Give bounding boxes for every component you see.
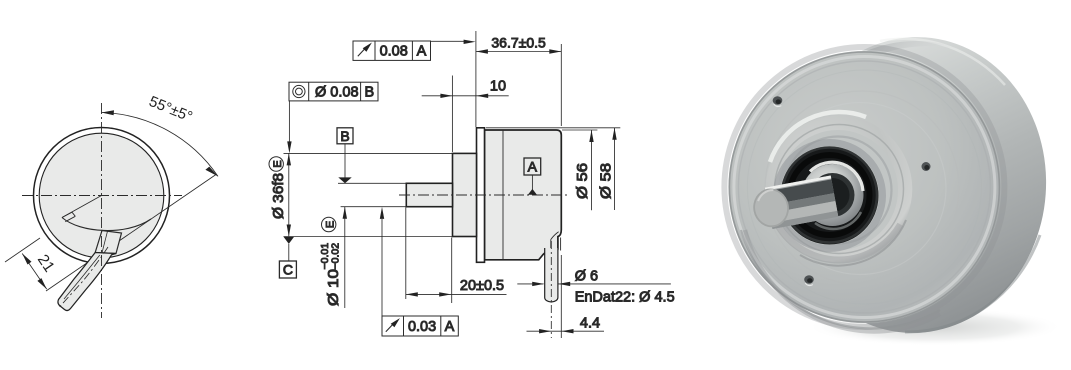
vertical centerline <box>101 103 103 318</box>
front flange disc <box>728 51 1000 323</box>
flange machining ring 1 <box>765 91 959 285</box>
body housing <box>485 130 562 260</box>
black seal ring <box>777 143 883 249</box>
svg-text:B: B <box>340 128 349 144</box>
arc arrowhead right <box>205 167 218 177</box>
flange lower-left dark rim <box>745 230 940 331</box>
svg-text:21: 21 <box>34 252 58 276</box>
dim O58 <box>614 128 616 210</box>
21 dim line <box>22 254 47 290</box>
shaft <box>406 183 452 206</box>
cable axis line 55deg <box>46 175 216 292</box>
cable centerline <box>550 241 552 338</box>
dim O36f8 ext lines <box>284 153 453 236</box>
flange top ext <box>486 127 620 129</box>
svg-text:Ø 36f8: Ø 36f8 <box>271 173 287 219</box>
svg-text:B: B <box>364 85 374 101</box>
cable nozzle <box>95 231 121 254</box>
F1 leader <box>431 40 465 42</box>
datum B <box>337 128 353 184</box>
drum top highlight edge <box>880 39 1005 85</box>
hub step ring <box>775 125 904 254</box>
O6 leader shelf <box>517 283 671 285</box>
gland inner lines <box>551 232 561 251</box>
drum top shading <box>845 41 968 68</box>
spigot boss <box>453 153 477 236</box>
svg-text:EnDat22: Ø 4.5: EnDat22: Ø 4.5 <box>575 290 675 306</box>
svg-text:E: E <box>272 160 284 167</box>
LEFT-VIEW <box>5 93 218 318</box>
arc arrowhead left <box>102 110 115 115</box>
cable stub <box>545 248 558 302</box>
horizontal centerline <box>22 195 182 197</box>
svg-text:36.7±0.5: 36.7±0.5 <box>491 34 546 50</box>
svg-text:A: A <box>528 159 538 175</box>
cable axis dashdot <box>60 247 109 307</box>
MID-VIEW <box>269 31 675 338</box>
flange machining ring 2 <box>774 103 946 275</box>
cable inner ridge <box>64 255 100 299</box>
21 dim arrowheads <box>22 254 31 265</box>
flange contact shadow on drum <box>724 47 1004 327</box>
dim 36.7 ext lines <box>476 31 561 127</box>
screw hole 1 <box>773 96 783 106</box>
svg-text:C: C <box>283 262 293 278</box>
svg-text:4.4: 4.4 <box>580 316 600 332</box>
drum bottom dark edge <box>905 235 1040 332</box>
svg-text:Ø 0.08: Ø 0.08 <box>315 85 359 101</box>
cable band <box>58 253 116 311</box>
PHOTO <box>724 28 1063 346</box>
angle dimension arc <box>102 113 219 177</box>
dim O10 line <box>344 207 346 308</box>
housing outer circle <box>34 128 170 264</box>
dim 4.4 line <box>527 330 605 332</box>
envelope E for O10 <box>322 217 336 231</box>
hub bottom shadow <box>778 225 901 261</box>
frame F3 runout 0.03 A <box>382 316 458 336</box>
drop shadow <box>807 308 1063 346</box>
svg-text:0.08: 0.08 <box>380 44 408 60</box>
flange rim <box>729 52 999 322</box>
gland left lug <box>62 212 75 222</box>
datum C <box>279 237 296 278</box>
radial line to gland <box>62 196 102 218</box>
screw hole 2 <box>922 162 931 171</box>
shaft ext lines <box>338 183 406 206</box>
21 dim ext line <box>5 238 40 262</box>
main centerline <box>399 194 568 196</box>
svg-text:55°±5°: 55°±5° <box>147 93 195 126</box>
gland smile arc <box>62 218 151 231</box>
dim O36f8 line <box>288 153 290 236</box>
body top ext <box>562 129 597 131</box>
flange screw circle <box>747 70 981 304</box>
dim 36.7 line <box>476 51 561 53</box>
dim O56 <box>591 130 593 210</box>
dim 10 line <box>422 95 509 97</box>
encoder body drum <box>774 28 1056 342</box>
svg-text:10: 10 <box>490 79 506 95</box>
svg-text:Ø 10: Ø 10 <box>326 269 342 306</box>
bearing ring <box>802 164 864 226</box>
F3 leader <box>381 219 383 316</box>
housing inner circle <box>39 133 164 258</box>
envelope E for O36f8 <box>269 157 283 171</box>
svg-text:0.03: 0.03 <box>408 319 436 335</box>
svg-text:−0.02: −0.02 <box>330 243 342 270</box>
svg-text:A: A <box>417 44 427 60</box>
datum A <box>524 158 541 195</box>
svg-text:E: E <box>324 221 336 228</box>
hub collar <box>766 116 913 263</box>
dim 20 line <box>406 293 507 295</box>
screw hole 3 <box>804 275 814 285</box>
dim 4.4 ext <box>560 255 562 338</box>
shaft <box>750 175 839 231</box>
svg-text:A: A <box>445 319 455 335</box>
F2 leader <box>288 101 290 142</box>
svg-text:20±0.5: 20±0.5 <box>460 278 504 294</box>
svg-text:Ø 56: Ø 56 <box>575 163 591 199</box>
svg-text:Ø 6: Ø 6 <box>575 269 598 285</box>
body internal line <box>502 130 504 260</box>
hub face <box>778 130 898 250</box>
dim 10 ext line <box>451 76 453 153</box>
nozzle inner line <box>102 231 108 253</box>
svg-text:Ø 58: Ø 58 <box>599 163 615 199</box>
frame F1 runout 0.08 A <box>353 41 431 60</box>
dim 20 ext lines <box>406 208 452 304</box>
frame F2 concentricity <box>289 82 378 101</box>
mounting flange plate <box>477 128 485 262</box>
